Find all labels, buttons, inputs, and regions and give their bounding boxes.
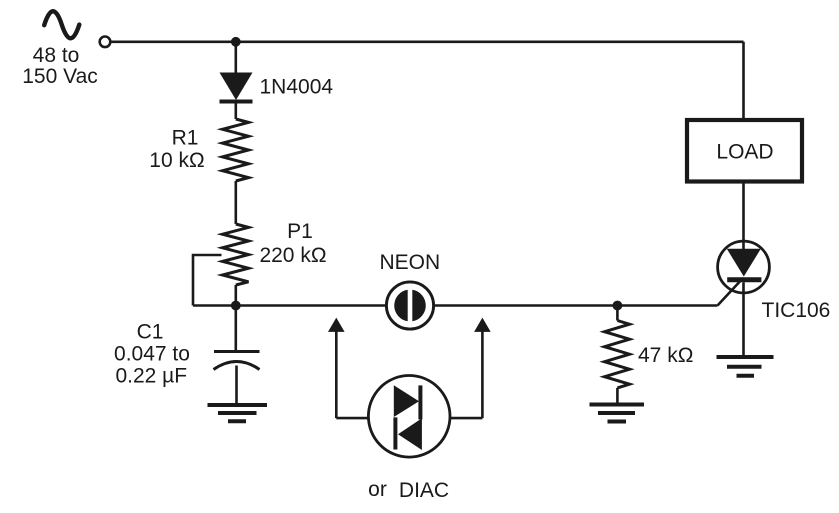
wire R1 to P1 xyxy=(235,181,238,224)
wire node to C1 xyxy=(235,306,238,352)
label or DIAC xyxy=(368,478,449,502)
label 48 to 150 Vac xyxy=(22,44,98,88)
svg-text:C1: C1 xyxy=(137,321,164,344)
ground below SCR xyxy=(717,357,774,376)
wire main node row left xyxy=(193,304,386,307)
svg-text:NEON: NEON xyxy=(379,251,440,274)
left arrow to neon wire xyxy=(328,318,345,419)
input terminal circle xyxy=(100,37,111,48)
AC source sine symbol xyxy=(44,11,79,38)
svg-text:P1: P1 xyxy=(287,220,313,243)
wire diode to R1 xyxy=(235,104,238,120)
wire P1 to node xyxy=(235,285,238,306)
svg-text:LOAD: LOAD xyxy=(716,141,773,164)
SCR TIC106 xyxy=(718,241,770,293)
wire 47k to ground xyxy=(616,388,619,403)
svg-text:150 Vac: 150 Vac xyxy=(22,65,98,88)
svg-text:1N4004: 1N4004 xyxy=(260,76,334,99)
label R1 10 kOhm xyxy=(149,127,204,173)
svg-text:48 to: 48 to xyxy=(33,44,80,67)
potentiometer P1 xyxy=(223,224,249,285)
diac circle xyxy=(368,376,450,458)
SCR gate lead xyxy=(718,278,744,306)
resistor 47k xyxy=(605,321,630,388)
label P1 220 kOhm xyxy=(259,220,326,267)
wire C1 to ground xyxy=(235,366,238,404)
ground below C1 xyxy=(208,405,268,421)
label C1 value xyxy=(114,321,190,388)
diac lower cathode bar xyxy=(393,417,397,449)
neon lamp xyxy=(386,282,433,329)
wire diac right lead xyxy=(420,417,482,420)
svg-text:10 kΩ: 10 kΩ xyxy=(149,149,204,172)
junction node top xyxy=(231,37,241,47)
load box xyxy=(687,120,802,182)
svg-text:DIAC: DIAC xyxy=(399,479,449,502)
resistor R1 xyxy=(223,119,249,181)
wire top to load xyxy=(742,42,745,120)
diode D1 1N4004 xyxy=(220,73,253,102)
svg-text:R1: R1 xyxy=(172,127,199,150)
wire SCR cathode to ground xyxy=(742,292,745,355)
diac lower diode triangle xyxy=(398,418,422,450)
capacitor C1 xyxy=(214,352,260,370)
wiper wire of P1 xyxy=(193,255,222,306)
diac upper diode triangle xyxy=(394,385,419,417)
wire junction to 47k resistor xyxy=(616,306,619,321)
svg-text:TIC106: TIC106 xyxy=(762,299,831,322)
svg-text:220 kΩ: 220 kΩ xyxy=(259,244,326,267)
svg-text:47 kΩ: 47 kΩ xyxy=(638,344,693,367)
svg-text:0.22 µF: 0.22 µF xyxy=(115,365,187,388)
diac upper cathode bar xyxy=(418,385,422,419)
wire junction to diode xyxy=(235,42,238,73)
wire top horizontal xyxy=(111,40,744,43)
junction node C1 xyxy=(231,301,241,311)
wire diac left lead xyxy=(336,417,395,420)
ground below 47k xyxy=(590,405,645,422)
junction node 47k xyxy=(613,301,623,311)
svg-text:or: or xyxy=(368,478,387,501)
right arrow to neon wire xyxy=(474,318,491,419)
wire neon to 47k junction xyxy=(434,304,718,307)
wire load to SCR xyxy=(742,182,745,242)
svg-text:0.047 to: 0.047 to xyxy=(114,343,190,366)
